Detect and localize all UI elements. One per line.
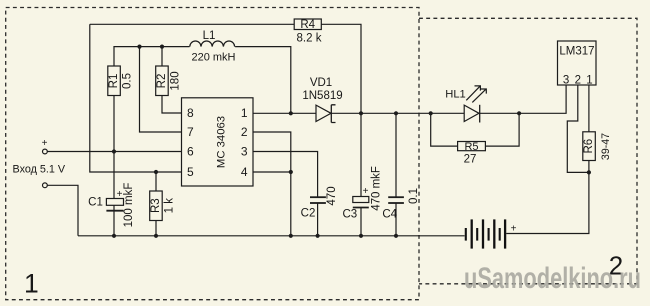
battery GB1 cell 2 plus plate: [482, 219, 484, 248]
svg-text:1: 1: [24, 269, 39, 299]
wire R3 top lead: [155, 172, 157, 191]
wire pin3 to C2: [253, 152, 318, 198]
resistor R3: [150, 191, 163, 221]
svg-text:+: +: [42, 138, 48, 149]
wire C4 bottom: [395, 203, 397, 236]
svg-text:220 mkH: 220 mkH: [191, 51, 235, 63]
resistor R2: [156, 66, 169, 96]
svg-text:470 mkF: 470 mkF: [371, 166, 383, 211]
svg-text:180: 180: [170, 71, 182, 90]
resistor R6: [583, 132, 596, 161]
svg-text:3: 3: [563, 74, 569, 86]
junction pin2 drop on pin4 wire: [289, 170, 293, 174]
svg-text:LM317: LM317: [559, 46, 594, 58]
svg-text:2: 2: [241, 125, 248, 139]
junction C4 on output wire: [394, 111, 398, 115]
svg-text:3: 3: [241, 145, 248, 159]
svg-text:MC 34063: MC 34063: [215, 116, 227, 168]
regulator LM317 body: [558, 41, 597, 85]
junction C4 on ground rail: [394, 234, 398, 238]
inductor L1: [190, 41, 235, 47]
wire R4 right to output node: [321, 24, 361, 113]
battery GB1 cell 1 plus plate: [471, 219, 473, 248]
junction R1/C1 on input wire: [112, 149, 116, 153]
wire left feedback vertical to pin5: [90, 24, 182, 172]
svg-text:1N5819: 1N5819: [302, 90, 342, 102]
wire LM317 pin1 to R6: [588, 85, 590, 132]
svg-text:C3: C3: [342, 209, 357, 221]
svg-text:R6: R6: [583, 139, 595, 154]
wire VD1 cathode to LED anode: [331, 112, 464, 114]
wire LED cathode to LM317 pin3: [480, 85, 566, 113]
svg-text:Вход 5.1 V: Вход 5.1 V: [13, 163, 66, 175]
junction R6 bottom with pin2 wire: [587, 170, 591, 174]
battery GB1 cell 3 minus plate: [488, 228, 490, 241]
svg-text:R4: R4: [300, 19, 315, 31]
wire pin7 elbow: [140, 47, 182, 132]
svg-text:1 k: 1 k: [164, 198, 176, 214]
junction pin2/4 drop on ground rail: [289, 234, 293, 238]
svg-text:R1: R1: [108, 74, 120, 89]
capacitor C1 plate bottom: [106, 210, 123, 212]
svg-text:0.1: 0.1: [408, 188, 420, 204]
wire C4 top: [395, 113, 397, 197]
svg-text:C4: C4: [382, 209, 397, 221]
wire L1 rail: [114, 47, 190, 66]
svg-text:C2: C2: [301, 208, 316, 220]
wire R5 right branch: [485, 113, 519, 146]
svg-text:R2: R2: [156, 74, 168, 89]
svg-text:+: +: [117, 189, 123, 200]
terminal input minus: [43, 183, 48, 188]
svg-text:4: 4: [241, 165, 248, 179]
wire pin4: [253, 171, 291, 173]
svg-text:27: 27: [464, 154, 477, 166]
wire L1 to switch node: [235, 47, 291, 114]
battery GB1 cell 3 plus plate: [493, 219, 495, 248]
resistor R1: [108, 66, 121, 96]
svg-text:R3: R3: [150, 198, 162, 213]
svg-text:L1: L1: [203, 30, 216, 42]
svg-text:C1: C1: [88, 197, 103, 209]
LED arrow 1: [466, 86, 480, 100]
capacitor C1 plate top: [106, 199, 123, 206]
wire input minus down to ground rail: [47, 185, 78, 236]
wire C2 bottom: [317, 203, 319, 236]
svg-text:+: +: [363, 186, 369, 197]
wire pin8 to R2 bottom: [162, 96, 182, 114]
svg-text:6: 6: [187, 145, 194, 159]
junction C3 on ground rail: [359, 234, 363, 238]
wire R5 left branch: [431, 113, 458, 146]
block 1 dashed border: [6, 8, 419, 300]
svg-text:+: +: [511, 224, 517, 235]
wire C3 bottom: [360, 208, 362, 236]
junction C1 on ground rail: [112, 234, 116, 238]
terminal input plus: [43, 149, 48, 154]
diode VD1 1N5819: [316, 105, 331, 121]
wire C3 top: [360, 113, 362, 196]
wire C1 bottom to ground rail: [113, 211, 115, 236]
wire ground rail: [78, 235, 465, 237]
junction R4/C3 on output wire: [359, 111, 363, 115]
LED HL1: [464, 105, 479, 121]
capacitor C4 plates: [388, 196, 404, 198]
svg-text:2: 2: [575, 74, 581, 86]
wire input plus to pin6: [47, 151, 181, 153]
capacitor C2 plates: [310, 196, 326, 198]
svg-text:1: 1: [586, 74, 592, 86]
wire LM317 pin2 elbow: [567, 85, 589, 172]
svg-text:470: 470: [326, 186, 338, 205]
junction R2 top on L1 rail: [160, 45, 164, 49]
junction C2 on ground rail: [316, 234, 320, 238]
battery GB1 cell 4 plus plate: [504, 219, 506, 248]
wire R3 bottom lead: [155, 221, 157, 236]
battery GB1 cell 4 minus plate: [499, 228, 501, 241]
wire R1 bottom through pin6 node to C1 top: [113, 96, 115, 199]
junction L1 drop on pin1 wire: [289, 111, 293, 115]
capacitor C3 plate top: [353, 197, 369, 203]
svg-text:VD1: VD1: [310, 77, 332, 89]
svg-text:R5: R5: [464, 141, 478, 153]
wire pin2 down through pin4 to rail: [253, 132, 291, 236]
battery GB1 cell 1 minus plate: [465, 228, 467, 241]
svg-text:8: 8: [187, 106, 194, 120]
IC U1 MC34063 body: [182, 98, 254, 186]
junction R3 on ground rail: [154, 234, 158, 238]
svg-text:7: 7: [187, 125, 194, 139]
svg-text:1: 1: [241, 106, 248, 120]
svg-text:100 mkF: 100 mkF: [123, 183, 135, 228]
LED arrow 2: [472, 89, 486, 102]
wire C1 plate gap stub: [113, 205, 115, 210]
svg-text:8.2 k: 8.2 k: [297, 33, 322, 45]
junction pin7 tap on L1 rail: [137, 45, 141, 49]
capacitor C3 plate bottom: [353, 207, 369, 209]
svg-text:0.5: 0.5: [122, 73, 134, 89]
svg-text:uSamodelkino.ru: uSamodelkino.ru: [464, 262, 641, 295]
wire pin1 to VD1 anode: [253, 112, 316, 114]
wire top rail: [90, 23, 294, 25]
svg-text:5: 5: [187, 165, 194, 179]
svg-text:39-47: 39-47: [600, 133, 612, 160]
battery GB1 cell 2 minus plate: [476, 228, 478, 241]
resistor R5: [458, 142, 486, 151]
block 2 dashed border: [419, 18, 637, 284]
svg-text:HL1: HL1: [445, 88, 466, 100]
wire R2 top lead: [161, 47, 163, 66]
wire battery plus to R6 bottom vertical: [506, 161, 589, 234]
resistor R4: [294, 19, 321, 30]
junction R5 left on output wire: [429, 111, 433, 115]
junction R5 right on output wire: [517, 111, 521, 115]
junction R3 top on pin5 wire: [154, 170, 158, 174]
